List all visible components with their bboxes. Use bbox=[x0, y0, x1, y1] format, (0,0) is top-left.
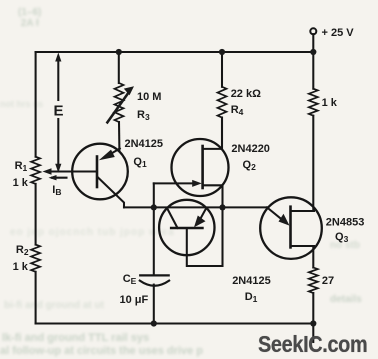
wire CE to bottom rail bbox=[153, 285, 155, 324]
arrowhead E bottom bbox=[55, 164, 61, 173]
wire bottom rail bbox=[36, 322, 314, 324]
transistor Q3 emitter lead bbox=[267, 207, 285, 222]
capacitor CE curved plate bbox=[140, 281, 169, 286]
svg-text:IB: IB bbox=[52, 184, 61, 197]
transistor Q2 circle bbox=[172, 139, 229, 196]
current arrow IB bbox=[52, 177, 67, 179]
resistor R3 (variable 10M) bbox=[115, 83, 124, 122]
resistor R2 bbox=[31, 245, 40, 272]
transistor Q1 circle bbox=[72, 144, 128, 200]
node dot Q2 gate/mid rail bbox=[151, 204, 157, 210]
transistor Q2 source lead bbox=[203, 185, 223, 207]
resistor 27 bbox=[309, 268, 318, 294]
wire R4 to Q2 drain bbox=[221, 118, 223, 149]
svg-text:E: E bbox=[54, 103, 64, 120]
node dot Q2 source/mid rail bbox=[219, 204, 225, 210]
wire Q3 base1 to 27 bbox=[312, 247, 314, 268]
arrowhead Q3 emitter bbox=[279, 214, 290, 226]
arrowhead R3 variable bbox=[124, 86, 134, 95]
svg-text:1 k: 1 k bbox=[13, 177, 29, 189]
wire Q2 gate down to mid rail bbox=[153, 183, 155, 207]
svg-text:Q2: Q2 bbox=[243, 159, 257, 172]
wire right vertical (rail to 1k) bbox=[312, 52, 314, 89]
transistor Q3 circle bbox=[260, 197, 322, 259]
svg-text:R4: R4 bbox=[231, 104, 244, 117]
node dot 27/bottom rail bbox=[310, 320, 316, 326]
wire +25V lead bbox=[312, 34, 314, 52]
arrowhead IB bbox=[49, 175, 57, 180]
svg-text:10 μF: 10 μF bbox=[120, 294, 149, 306]
svg-text:CE: CE bbox=[123, 273, 137, 286]
svg-text:2N4125: 2N4125 bbox=[232, 275, 271, 287]
capacitor CE top plate bbox=[140, 274, 169, 276]
transistor Q3 base1 lead bbox=[291, 246, 315, 248]
transistor Q3 base bar bbox=[289, 207, 292, 248]
svg-text:1 k: 1 k bbox=[322, 97, 338, 109]
transistor D1 circle bbox=[159, 200, 214, 255]
arrowhead Q2 gate bbox=[192, 180, 202, 187]
transistor D1 base bar bbox=[171, 227, 202, 230]
wire left vertical lower (R2 to bottom rail) bbox=[35, 272, 37, 324]
svg-text:22 kΩ: 22 kΩ bbox=[231, 88, 261, 100]
svg-text:D1: D1 bbox=[245, 291, 258, 304]
node dot R4/top rail bbox=[219, 49, 225, 55]
svg-text:2N4853: 2N4853 bbox=[326, 217, 365, 229]
terminal +25V bbox=[310, 28, 316, 34]
wire 27 to bottom rail bbox=[312, 293, 314, 324]
svg-text:Q1: Q1 bbox=[133, 156, 147, 169]
svg-text:R3: R3 bbox=[137, 109, 150, 122]
svg-text:R2: R2 bbox=[16, 244, 29, 257]
arrowhead Q1 emitter bbox=[99, 150, 115, 161]
svg-text:2N4125: 2N4125 bbox=[125, 138, 164, 150]
faint bleed-through text top-left bbox=[18, 7, 41, 29]
wire stub below bottom-right node bbox=[312, 324, 314, 343]
transistor Q2 gate lead bbox=[154, 182, 194, 184]
transistor D1 collector lead bbox=[167, 208, 178, 228]
wire mid rail bbox=[124, 206, 267, 208]
wire R3 arrow shaft bbox=[106, 91, 130, 124]
wire D1 base loop bbox=[187, 207, 223, 266]
wire top rail bbox=[36, 51, 314, 53]
wire left vertical middle (R1 to R2) bbox=[35, 184, 37, 245]
transistor D1 emitter lead bbox=[198, 208, 207, 224]
svg-text:R1: R1 bbox=[15, 160, 28, 173]
svg-text:1 k: 1 k bbox=[13, 261, 29, 273]
svg-text:27: 27 bbox=[322, 275, 334, 287]
transistor Q1 collector lead bbox=[98, 178, 124, 208]
node dot +25V/top rail bbox=[310, 49, 316, 55]
wire left vertical upper (rail to R1) bbox=[35, 52, 37, 157]
wire Q1 base to R1 wiper bbox=[47, 170, 97, 172]
resistor R4 22k bbox=[218, 87, 227, 118]
resistor R1 bbox=[31, 157, 40, 184]
arrowhead D1 emitter bbox=[194, 216, 206, 228]
wire 1k to Q3 base2 bbox=[312, 116, 314, 211]
wire R4 branch from top rail bbox=[221, 52, 223, 87]
faint bleed-through row mid-left bbox=[0, 99, 43, 109]
resistor 1k right bbox=[309, 89, 318, 116]
transistor Q3 base2 lead bbox=[291, 208, 315, 211]
transistor Q1 emitter lead bbox=[111, 149, 120, 155]
node dot R3/top rail bbox=[116, 49, 122, 55]
watermark SeekIC.com bbox=[258, 331, 367, 358]
node dot CE/bottom rail bbox=[151, 320, 157, 326]
arrowhead R1 wiper bbox=[43, 168, 52, 174]
wire CE branch (mid rail to capacitor) bbox=[153, 207, 155, 275]
arrowhead E top bbox=[55, 53, 61, 62]
wire R3 to Q1 emitter bbox=[118, 122, 120, 151]
faint bleed-through bottom rows bbox=[10, 227, 175, 238]
svg-text:2N4220: 2N4220 bbox=[231, 143, 270, 155]
svg-text:+ 25 V: + 25 V bbox=[322, 27, 355, 39]
transistor Q2 channel bar bbox=[201, 146, 204, 188]
wire R3 branch from top rail bbox=[118, 52, 120, 83]
transistor Q1 base bar bbox=[96, 157, 99, 188]
transistor Q2 drain lead bbox=[203, 118, 222, 149]
svg-text:10 M: 10 M bbox=[137, 91, 161, 103]
voltage arrow E (double headed) bbox=[57, 57, 59, 100]
svg-text:Q3: Q3 bbox=[335, 231, 349, 244]
